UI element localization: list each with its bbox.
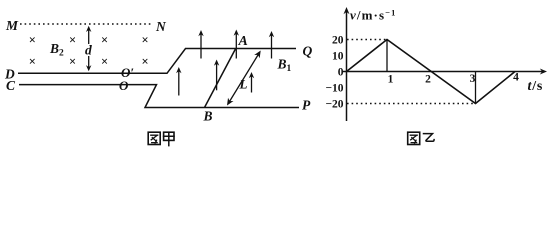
svg-text:N: N xyxy=(155,19,167,34)
svg-text:0: 0 xyxy=(338,66,344,78)
svg-text:−10: −10 xyxy=(325,82,343,94)
svg-text:M: M xyxy=(5,18,19,33)
svg-text:3: 3 xyxy=(470,73,476,85)
svg-text:2: 2 xyxy=(425,74,431,86)
svg-text:10: 10 xyxy=(332,50,344,62)
svg-text:×: × xyxy=(29,55,36,69)
svg-text:v/m·s−1: v/m·s−1 xyxy=(350,8,396,23)
svg-text:×: × xyxy=(29,33,36,47)
svg-text:B2: B2 xyxy=(49,41,64,59)
svg-text:t/s: t/s xyxy=(528,79,544,94)
svg-text:×: × xyxy=(142,55,149,69)
svg-text:×: × xyxy=(69,55,76,69)
svg-text:4: 4 xyxy=(513,72,519,84)
svg-text:×: × xyxy=(101,33,108,47)
svg-text:B: B xyxy=(203,109,213,124)
svg-text:B1: B1 xyxy=(277,57,292,75)
svg-text:A: A xyxy=(238,34,248,49)
svg-text:×: × xyxy=(69,33,76,47)
svg-text:O: O xyxy=(119,78,129,93)
svg-text:×: × xyxy=(142,33,149,47)
svg-text:d: d xyxy=(85,43,92,58)
svg-text:C: C xyxy=(6,78,16,93)
svg-text:1: 1 xyxy=(388,74,394,86)
svg-text:×: × xyxy=(101,55,108,69)
svg-text:Q: Q xyxy=(303,43,313,58)
svg-text:P: P xyxy=(302,97,311,112)
svg-text:−20: −20 xyxy=(325,98,343,110)
svg-text:20: 20 xyxy=(332,34,344,46)
svg-text:L: L xyxy=(239,77,248,92)
